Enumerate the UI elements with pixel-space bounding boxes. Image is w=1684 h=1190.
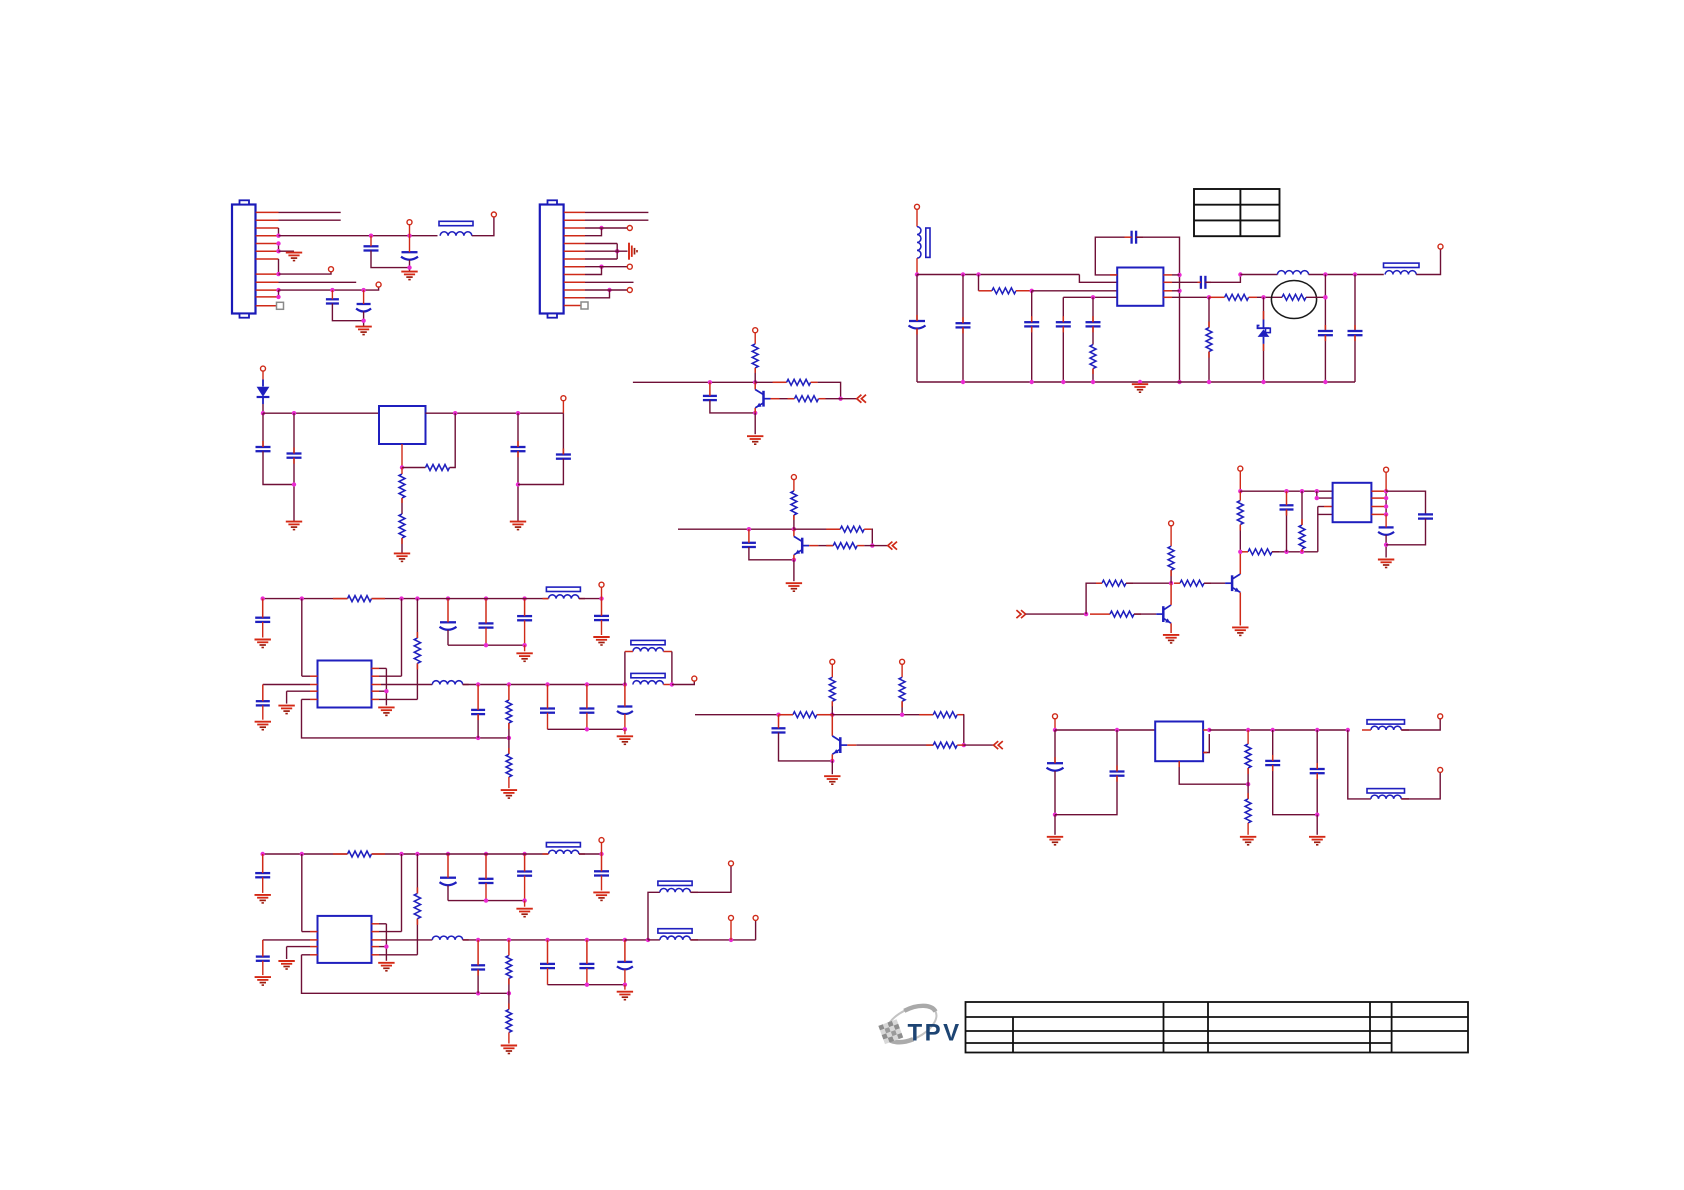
junction J1 p6: [276, 249, 280, 253]
ground U4 out rail: [617, 736, 633, 744]
wire J2 p8 net: [585, 266, 627, 268]
junction U4 rail Cb3: [522, 643, 526, 647]
resistor U5 divider bottom: [506, 1009, 512, 1032]
junction rp1: [1384, 489, 1388, 493]
junction J2 p6: [615, 249, 619, 253]
wire Q1 stage input bus: [633, 381, 755, 383]
wire pin1-pin2 tie: [1317, 491, 1333, 498]
inductor U4 xfmr top: [633, 648, 664, 652]
wire J2 p6 to ground: [585, 250, 628, 252]
junction U5 rowD tie: [384, 944, 388, 948]
wire zener bottom lead: [1263, 344, 1265, 382]
junction J2 p11: [607, 288, 611, 292]
junction U6 Cin2: [1115, 728, 1119, 732]
ground U4 pin3: [278, 706, 294, 714]
wire U5 out rail: [548, 984, 625, 986]
off-page connector input H: [1016, 610, 1025, 618]
wire U6 Rdiv top lead: [1247, 730, 1249, 744]
wire R7 lead: [401, 468, 403, 475]
junction U6 bus left: [1053, 728, 1057, 732]
wire J1 p4 bus: [279, 235, 438, 237]
wire U6 Co1 bottom: [1273, 765, 1318, 815]
junction U5 lower terminal tap: [729, 938, 733, 942]
terminal U6 lower output: [1438, 767, 1443, 772]
connector J1 pin stub 5: [256, 243, 279, 245]
wire U6 out stub: [1203, 729, 1209, 731]
wire U5 lower run: [690, 939, 755, 941]
svg-text:TPV: TPV: [908, 1020, 962, 1047]
resistor R4 inside fuse circle: [1282, 294, 1306, 300]
capacitor C14: [1348, 331, 1363, 335]
wire U5 pin3 gnd link: [286, 947, 288, 959]
junction U5 Cb1: [446, 852, 450, 856]
wire U6 Cin2 top lead: [1116, 730, 1118, 772]
junction U4 pin1 riser: [300, 596, 304, 600]
wire C12 to bus riser: [1205, 275, 1240, 283]
junction Q3 pullup2-bus: [900, 713, 904, 717]
wire U5 rowB stub: [372, 931, 380, 933]
terminal U3 supply: [1238, 466, 1243, 471]
wire U6 out rail gnd link: [1316, 815, 1318, 835]
wire Q3 stage input bus: [695, 714, 793, 716]
capacitor C12 boost: [1201, 276, 1206, 289]
junction bus-C2: [369, 234, 373, 238]
junction bus-pin1: [1315, 489, 1319, 493]
wire U4 SW stub: [372, 684, 382, 686]
wire C4 top lead: [331, 290, 333, 299]
connector J2 pin stub 6: [564, 250, 585, 252]
junction J1 p11: [276, 295, 280, 299]
fuse F1 circle: [1271, 281, 1316, 319]
connector J1 pin stub 11: [256, 296, 279, 298]
wire C16 bottom lead: [293, 458, 295, 522]
junction reg bus left: [261, 411, 265, 415]
ground below C5: [355, 327, 371, 335]
terminal power output: [1438, 244, 1443, 249]
junction U5 Cb2: [484, 852, 488, 856]
junction bottom bus gnd: [1138, 380, 1142, 384]
capacitor C8: [1024, 322, 1039, 326]
wire U4 Cb3 bottom: [524, 620, 526, 645]
junction J2 p3: [599, 226, 603, 230]
capacitor U4 feedforward: [471, 710, 485, 714]
junction U6 fb node: [1246, 782, 1250, 786]
wire L1 to terminal: [472, 217, 494, 236]
terminal power input: [915, 204, 920, 209]
junction U5 Vin corner: [599, 852, 603, 856]
wire reg bus right: [426, 412, 564, 414]
resistor Q2 stage pullup: [791, 491, 797, 515]
wire Q4 pullup link: [1170, 526, 1172, 546]
inductor U6 upper shield bar: [1367, 720, 1405, 724]
wire row to U3 pin4: [1318, 514, 1333, 551]
IC U1 regulator: [1117, 268, 1163, 306]
title block table: [966, 1002, 1469, 1053]
wire C8 bottom lead: [1031, 326, 1033, 382]
resistor R7: [399, 474, 405, 498]
connector J2 pin stub 3: [564, 227, 585, 229]
capacitor U4 ref bypass: [256, 701, 270, 705]
terminal J2 p11: [627, 288, 632, 293]
wire C21 loop: [1386, 491, 1425, 514]
wire U4 pin3 stub: [310, 690, 318, 692]
wire U4 xfmr left leg: [624, 652, 626, 685]
wire U5 rail gnd link: [524, 901, 526, 907]
wire C14 bottom lead: [1354, 335, 1356, 382]
resistor Q1 stage pullup: [752, 344, 758, 368]
junction bus-C6: [961, 272, 965, 276]
inductor L2 vertical: [917, 227, 921, 259]
wire U5 Co2 bottom: [586, 968, 588, 985]
junction U6 out: [1207, 728, 1211, 732]
resistor Q3 stage base: [933, 742, 957, 748]
wire U5 pin3 stub: [310, 946, 318, 948]
terminal regulator output: [561, 396, 566, 401]
junction U4 xfmr out: [670, 682, 674, 686]
terminal J1 p8: [329, 267, 334, 272]
capacitor U5 feedforward: [471, 965, 485, 969]
junction Q2 stage output node: [870, 543, 874, 547]
resistor R8: [399, 514, 405, 538]
wire U5 top bus: [263, 853, 348, 855]
wire Q1 stage to chevron: [841, 398, 857, 400]
ground U3: [1378, 560, 1394, 568]
inductor L2 shield bar: [926, 228, 930, 257]
wire U5 divider gnd link: [508, 1032, 510, 1043]
wire R16 bottom lead: [1301, 549, 1303, 552]
junction U4 Cb3: [522, 596, 526, 600]
capacitor U4 Co1: [540, 709, 555, 713]
junction U4 fb-divider: [507, 736, 511, 740]
wire U5 Cff bottom: [477, 970, 479, 994]
wire zener top lead: [1263, 297, 1265, 319]
wire J2 p10 net: [585, 281, 634, 283]
junction R14-R15 node: [1238, 550, 1242, 554]
capacitor C17: [511, 447, 526, 451]
capacitor C20 polarized: [1378, 527, 1394, 535]
wire Q1 stage emitter to ground: [754, 413, 756, 434]
wire C10 to R2: [1092, 326, 1094, 344]
wire Q3 stage base row: [963, 744, 965, 746]
capacitor U5 Cb2: [479, 879, 494, 883]
wire U3 pin3 stub: [1324, 506, 1333, 508]
junction U6 Cin1 rail: [1053, 813, 1057, 817]
connector J1 pin stub 8: [256, 273, 279, 275]
junction bus-C13: [1323, 272, 1327, 276]
logo TPV checker mark: [878, 1019, 903, 1044]
wire U4 Co1 bottom: [547, 713, 549, 730]
junction U4 fb-cap: [476, 736, 480, 740]
wire C9 top lead: [1062, 297, 1064, 322]
capacitor Q2 stage base bypass: [742, 543, 756, 547]
wire J2 p3 net: [585, 227, 627, 229]
junction bus-C19 top: [1284, 489, 1288, 493]
resistor R13 coupling: [1180, 580, 1204, 586]
junction feedback-bus: [1177, 380, 1181, 384]
resistor R2 vertical: [1090, 345, 1096, 369]
wire Q3 stage emitter to ground: [831, 761, 833, 774]
inductor L3: [1278, 271, 1309, 275]
wire U6 lower out: [1401, 773, 1440, 799]
inductor L4 shield bar: [1384, 263, 1420, 267]
junction C4-C5 bottom: [361, 319, 365, 323]
wire U5 pin1 stub: [310, 931, 318, 933]
transistor Q4: [1156, 583, 1171, 633]
resistor R15: [1248, 549, 1272, 555]
resistor U6 divider bottom: [1245, 799, 1251, 823]
inductor U5 upper shield bar: [658, 881, 692, 885]
resistor R16: [1299, 525, 1305, 549]
junction C20-C21: [1384, 543, 1388, 547]
junction bus-R16 top: [1300, 489, 1304, 493]
capacitor C4: [326, 299, 339, 303]
off-page connector Q1 stage: [857, 395, 866, 403]
wire U5 cap rail: [448, 900, 525, 902]
ground U6 input: [1047, 837, 1063, 845]
connector J2 pin stub 9: [564, 274, 585, 276]
terminal U4 output: [692, 676, 697, 681]
capacitor U5 Co1: [540, 964, 555, 968]
connector J1 pin stub 4: [256, 235, 279, 237]
inductor U5 output: [432, 936, 462, 940]
IC U3: [1333, 483, 1372, 522]
capacitor C15: [256, 447, 271, 451]
wire U5 rowA stub: [372, 923, 380, 925]
wire Q2 stage pullup link: [793, 480, 795, 491]
connector J1 body: [232, 200, 256, 317]
capacitor U4 Co2: [579, 709, 594, 713]
wire U4 top bus: [263, 598, 348, 600]
wire U5 output row: [463, 939, 625, 941]
connector J2 pin stub 5: [564, 243, 585, 245]
wire U6 lower branch: [1348, 730, 1371, 799]
junction U5 out-Co1: [545, 938, 549, 942]
junction J1 p10: [276, 288, 280, 292]
junction Q3 stage cap tap: [776, 713, 780, 717]
junction Q2 stage cap tap: [747, 527, 751, 531]
wire J2 p5 stub: [585, 243, 617, 245]
junction C13-row: [1323, 295, 1327, 299]
wire U4 Vin link: [601, 587, 603, 598]
wire Q1 stage base row lead: [780, 398, 795, 400]
wire U4 rowB riser: [401, 599, 403, 677]
wire U3 out link: [1385, 472, 1387, 491]
wire U6 Cin1 bottom: [1054, 771, 1056, 815]
junction tie-pin2: [1315, 496, 1319, 500]
connector J2 pin stub 4: [564, 235, 585, 237]
wire pin4 row: [1063, 296, 1117, 298]
wire U5 aux link: [730, 921, 732, 940]
wire terminal link: [409, 225, 411, 236]
wire U4 Cb1 bottom: [447, 630, 449, 645]
junction bottom bus R5: [1207, 380, 1211, 384]
wire U1 pin1 to feedback: [1095, 237, 1124, 275]
terminal U5 aux output: [729, 915, 734, 920]
inductor L4: [1385, 271, 1416, 275]
junction U4 rail Co2: [585, 727, 589, 731]
inductor U5 input: [549, 850, 579, 854]
wire C2 top lead: [370, 236, 372, 247]
wire Q3 stage Rtop corner: [963, 715, 965, 745]
no-connect J2 p13: [581, 302, 588, 309]
wire J1 p8 net: [279, 272, 332, 274]
transistor Q5: [1225, 552, 1240, 626]
wire U6 Cin1 top lead: [1054, 730, 1056, 763]
resistor Q1 stage top feedback: [787, 379, 811, 385]
connector J2 pin stub 8: [564, 266, 585, 268]
transistor Q1 stage: [755, 382, 770, 413]
capacitor U5 Co3 polarized: [617, 962, 633, 970]
wire U6 Cin2 bottom: [1055, 776, 1117, 815]
wire U6 Co2 top lead: [1316, 730, 1318, 769]
inductor U6 lower: [1371, 795, 1401, 799]
terminal J1 p10: [376, 282, 381, 287]
junction U4 out-divider: [507, 682, 511, 686]
junction U5 out-Cfb: [476, 938, 480, 942]
transistor Q2 stage: [794, 529, 809, 560]
wire U5 Cb1 bottom: [447, 885, 449, 900]
capacitor C10: [1086, 322, 1101, 326]
connector J1 pin stub 6: [256, 250, 279, 252]
wire C17 bottom lead: [517, 451, 519, 521]
inductor U4 input: [549, 595, 579, 599]
connector J2 pin stub 1: [564, 211, 585, 213]
inductor U6 upper: [1371, 726, 1401, 730]
wire U4 out rail: [548, 728, 625, 730]
connector J1 pin stub 7: [256, 258, 279, 260]
wire D1 top link: [262, 371, 264, 379]
resistor U4 divider top: [506, 700, 512, 723]
junction Q2 stage emitter node: [792, 558, 796, 562]
wire U4 bus to L: [438, 598, 549, 600]
wire H riser: [1086, 583, 1102, 614]
capacitor U4 Vin bypass: [594, 616, 609, 620]
wire J1 p1 net: [279, 211, 341, 213]
connector J2 pin stub 12: [564, 297, 585, 299]
junction p10-C5: [361, 288, 365, 292]
wire D1 to bus: [262, 404, 264, 413]
off-page connector Q2 stage: [888, 542, 897, 550]
junction U5 out-divider: [507, 938, 511, 942]
junction J1 p4: [276, 234, 280, 238]
wire U5 out to split: [625, 939, 648, 941]
terminal U5 upper output: [729, 861, 734, 866]
wire U5 boot riser: [416, 854, 418, 893]
connector J1 pin stub 10: [256, 289, 279, 291]
wire U4 Cff bottom: [477, 714, 479, 738]
junction rp4: [1384, 512, 1388, 516]
wire U4 Cb2 bottom: [485, 628, 487, 646]
wire C7 bottom lead: [962, 327, 964, 382]
wire U4 Co3 bottom: [624, 714, 626, 729]
wire J2 p2 net: [585, 219, 648, 221]
junction supply bus: [1238, 489, 1242, 493]
resistor U5 boot: [414, 893, 420, 918]
wire U5 pin2 stub: [310, 939, 318, 941]
wire U3 supply link: [1239, 471, 1241, 491]
wire U6 in link: [1054, 719, 1056, 730]
wire U6 Rdiv mid: [1247, 768, 1249, 799]
junction C2-C3 bottom: [407, 265, 411, 269]
wire J1 p7-p8 tie: [278, 259, 280, 274]
capacitor C6 polarized input: [909, 321, 926, 329]
ground Q3 stage: [824, 776, 840, 784]
inductor U5 input shield bar: [546, 843, 580, 847]
wire R7-R8 link: [401, 498, 403, 514]
ground U6 divider: [1240, 837, 1256, 845]
capacitor U5 Cb3: [517, 872, 532, 876]
wire C20 bottom lead: [1385, 535, 1387, 558]
junction U4 Cb2: [484, 596, 488, 600]
capacitor C13: [1318, 331, 1333, 335]
terminal Q1 stage pullup: [753, 328, 758, 333]
junction U4 rail Co3: [623, 727, 627, 731]
capacitor C3 polarized: [401, 252, 418, 260]
junction zener tap: [1261, 295, 1265, 299]
wire Q2 stage base row: [864, 545, 872, 547]
junction U5 bus left: [261, 852, 265, 856]
wire R2 bottom lead: [1092, 369, 1094, 382]
wire main bus top: [917, 274, 1079, 276]
wire R16 top lead: [1301, 491, 1303, 525]
ground Q5: [1232, 627, 1248, 635]
connector J2 body: [540, 200, 564, 317]
wire U5 rowD stub: [372, 946, 380, 948]
wire Q3 stage Rtop lead: [832, 714, 933, 716]
capacitor U4 bulk polarized: [440, 622, 457, 630]
capacitor C2: [364, 246, 379, 250]
wire Q2 stage to chevron: [872, 545, 888, 547]
wire Q3 stage cap bottom: [779, 733, 833, 761]
junction U5 rail Co3: [623, 983, 627, 987]
terminal Q3 stage pullup: [830, 659, 835, 664]
off-page connector Q3 stage: [994, 741, 1003, 749]
resistor Q2 stage top feedback: [840, 526, 864, 532]
wire C7 top lead: [962, 275, 964, 324]
resistor Q2 stage base: [833, 543, 857, 549]
terminal U5 Vin: [599, 838, 604, 843]
wire U4 Cref bottom: [262, 705, 264, 719]
wire U6 Rdiv gnd link: [1247, 823, 1249, 835]
ground U5 CVin: [593, 892, 609, 900]
wire U5 upper to terminal: [690, 866, 731, 892]
junction row-C19: [1284, 550, 1288, 554]
connector J1 pin stub 2: [256, 219, 279, 221]
terminal Q4 pullup: [1169, 521, 1174, 526]
wire U4 Cin bottom lead: [262, 622, 264, 638]
terminal regulator input: [261, 366, 266, 371]
resistor R6: [426, 465, 450, 471]
inductor L1: [440, 232, 472, 236]
IC U6 LDO: [1155, 722, 1203, 762]
capacitor U5 input bypass: [255, 873, 270, 877]
connector J2 pin stub 11: [564, 289, 585, 291]
wire L3 to L4: [1309, 274, 1384, 276]
wire Q3 pullup2 link: [901, 665, 903, 678]
wire C8 top lead: [1031, 291, 1033, 322]
junction U4 out-Co3: [623, 682, 627, 686]
wire C5 top lead: [363, 290, 365, 304]
wire R5 bottom lead: [1208, 352, 1210, 382]
wire U4 rowA tie: [385, 668, 387, 705]
wire U5 Vin link: [601, 843, 603, 854]
ground below C16: [286, 522, 302, 530]
wire U4 boot riser: [416, 599, 418, 638]
wire C13 bottom lead: [1324, 335, 1326, 382]
junction rp4-R3: [1207, 295, 1211, 299]
terminal after L1: [491, 212, 496, 217]
wire U5 pin4 stub: [310, 954, 318, 956]
